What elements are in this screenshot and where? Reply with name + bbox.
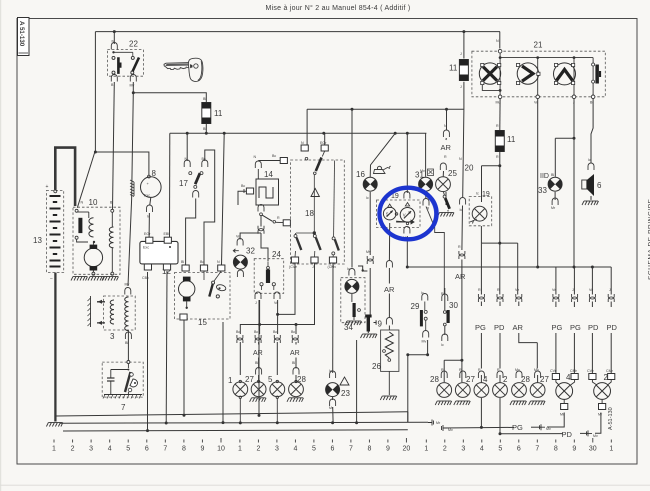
svg-text:PG: PG [552,323,563,332]
svg-text:Ic: Ic [460,208,463,212]
svg-text:Ve: Ve [274,301,278,305]
svg-text:N: N [254,155,257,159]
svg-text:29: 29 [411,302,420,311]
svg-text:N: N [444,124,447,128]
svg-text:PD: PD [494,323,505,332]
svg-text:J: J [460,52,462,56]
svg-text:11: 11 [214,109,223,118]
svg-text:EGr: EGr [144,232,151,236]
svg-text:Ve: Ve [589,288,593,292]
svg-text:N: N [217,260,220,264]
svg-text:CVe: CVe [587,369,594,373]
svg-text:6: 6 [517,445,521,452]
svg-text:4: 4 [293,445,297,452]
svg-text:27: 27 [245,375,254,384]
svg-text:(CVe: (CVe [289,265,297,269]
svg-text:PD: PD [588,323,599,332]
svg-text:N: N [496,39,499,43]
svg-text:Mv: Mv [534,368,539,372]
svg-text:AR: AR [455,272,466,281]
svg-text:Bl: Bl [181,260,184,264]
svg-text:PD: PD [562,430,573,439]
svg-text:28: 28 [430,375,439,384]
svg-text:2: 2 [443,445,447,452]
svg-text:Bc: Bc [291,330,295,334]
svg-text:1: 1 [52,445,56,452]
svg-text:Mise à jour N° 2 au Manuel 854: Mise à jour N° 2 au Manuel 854-4 ( Addit… [266,4,411,12]
svg-text:9: 9 [386,445,390,452]
svg-text:Ic: Ic [329,369,332,373]
svg-text:8: 8 [554,445,558,452]
svg-text:R: R [497,368,500,372]
svg-text:(CMv: (CMv [328,265,337,269]
svg-text:5: 5 [126,445,130,452]
svg-text:Mv: Mv [420,169,425,173]
svg-text:Mv: Mv [593,434,598,438]
svg-text:18: 18 [305,209,314,218]
svg-text:7: 7 [163,445,167,452]
svg-text:CMr: CMr [570,369,578,373]
svg-text:17: 17 [179,179,188,188]
svg-text:Mu: Mu [496,101,501,105]
svg-text:EGr: EGr [320,141,327,145]
svg-text:Ic: Ic [588,158,591,162]
svg-text:N: N [81,201,84,205]
svg-text:Bl: Bl [255,361,258,365]
svg-text:Ic: Ic [347,267,350,271]
svg-text:J: J [255,301,257,305]
svg-text:3: 3 [275,445,279,452]
svg-text:CVe: CVe [550,369,557,373]
svg-text:2: 2 [503,375,508,384]
svg-text:IID: IID [540,173,549,180]
svg-text:3: 3 [461,445,465,452]
svg-text:Mv: Mv [422,340,427,344]
svg-text:R: R [478,368,481,372]
svg-text:AR: AR [513,323,524,332]
svg-text:21: 21 [534,41,543,50]
svg-text:9: 9 [378,320,383,329]
svg-text:Mv: Mv [130,84,135,88]
svg-text:24: 24 [272,250,281,259]
svg-text:CMr: CMr [606,369,614,373]
svg-text:+: + [46,184,49,190]
svg-text:AR: AR [384,285,395,294]
svg-text:R: R [496,155,499,159]
svg-text:20: 20 [403,445,411,452]
svg-text:R: R [441,368,444,372]
svg-text:4: 4 [480,445,484,452]
svg-text:Bc: Bc [241,184,245,188]
svg-text:27: 27 [466,375,475,384]
svg-text:Ve: Ve [534,101,538,105]
svg-text:8: 8 [182,445,186,452]
svg-text:20: 20 [465,164,474,173]
svg-text:CBc: CBc [142,276,149,280]
svg-text:N: N [301,141,304,145]
svg-text:4: 4 [108,445,112,452]
svg-text:R: R [497,288,500,292]
svg-text:Bc: Bc [272,154,276,158]
svg-text:22: 22 [129,40,138,49]
svg-text:AR: AR [253,350,263,357]
svg-text:5: 5 [498,445,502,452]
svg-text:11: 11 [507,135,516,144]
svg-text:15: 15 [198,318,207,327]
svg-text:1: 1 [238,445,242,452]
svg-text:S: S [386,212,389,217]
svg-text:10: 10 [89,198,98,207]
svg-text:J: J [609,288,611,292]
svg-text:1: 1 [228,376,233,385]
svg-text:Exc: Exc [143,246,149,250]
svg-text:J: J [573,101,575,105]
svg-text:19: 19 [482,191,490,198]
svg-text:Ve: Ve [236,235,240,239]
svg-text:Bc: Bc [236,330,240,334]
svg-text:Bl: Bl [590,101,593,105]
svg-text:5: 5 [312,445,316,452]
svg-text:N: N [459,157,462,161]
svg-text:2: 2 [256,445,260,452]
svg-text:4: 4 [566,373,571,382]
svg-text:Mv: Mv [125,283,130,287]
svg-text:13: 13 [33,236,42,245]
svg-text:3: 3 [110,332,115,341]
svg-text:10: 10 [217,445,225,452]
svg-text:R: R [478,288,481,292]
svg-text:R: R [277,216,280,220]
svg-text:9: 9 [572,445,576,452]
svg-text:1: 1 [424,445,428,452]
svg-text:Ve: Ve [515,288,519,292]
svg-text:R: R [444,155,447,159]
svg-text:2: 2 [71,445,75,452]
svg-text:8: 8 [367,445,371,452]
svg-text:3: 3 [89,445,93,452]
svg-text:R: R [496,124,499,128]
svg-text:5: 5 [268,375,273,384]
svg-text:PD: PD [607,323,618,332]
svg-text:PG: PG [512,423,523,432]
svg-text:6: 6 [330,445,334,452]
svg-text:7: 7 [121,403,126,412]
svg-text:Mv: Mv [366,250,371,254]
svg-text:23: 23 [341,389,350,398]
svg-text:Bc: Bc [273,330,277,334]
svg-text:Mv: Mv [515,368,520,372]
svg-text:R: R [458,245,461,249]
svg-text:EBl: EBl [164,232,170,236]
svg-text:Bl: Bl [203,127,206,131]
svg-text:9: 9 [200,445,204,452]
svg-text:PG: PG [570,323,581,332]
svg-text:30: 30 [449,301,458,310]
svg-text:Bl: Bl [125,341,128,345]
svg-text:11: 11 [449,64,458,73]
svg-text:6: 6 [145,445,149,452]
svg-text:16: 16 [356,170,365,179]
svg-text:Mv: Mv [448,428,453,432]
svg-text:Bl: Bl [203,97,206,101]
svg-text:Ve: Ve [552,288,556,292]
svg-text:A-51-130: A-51-130 [608,407,614,430]
svg-text:Ic: Ic [147,215,150,219]
svg-text:27: 27 [540,375,549,384]
svg-text:Exc: Exc [144,194,150,198]
svg-text:Bl: Bl [292,361,295,365]
svg-text:−: − [50,276,53,282]
svg-text:25: 25 [448,169,457,178]
svg-text:Bl: Bl [551,173,554,177]
svg-text:7: 7 [349,445,353,452]
svg-text:J: J [572,288,574,292]
svg-text:Bc: Bc [254,330,258,334]
svg-text:R: R [459,368,462,372]
svg-text:1: 1 [609,445,613,452]
svg-text:PG: PG [475,323,486,332]
svg-text:V: V [403,213,406,218]
svg-text:AR: AR [290,350,300,357]
svg-text:Ic: Ic [441,343,444,347]
svg-text:Ic: Ic [476,192,479,196]
svg-text:J: J [460,85,462,89]
svg-text:Mv: Mv [546,427,551,431]
svg-text:7: 7 [535,445,539,452]
svg-text:AR: AR [441,143,452,152]
svg-text:Ic: Ic [366,196,369,200]
svg-text:J: J [312,265,314,269]
svg-text:A 51-130: A 51-130 [18,21,25,47]
svg-text:6: 6 [597,181,602,190]
svg-text:14: 14 [264,170,273,179]
svg-text:30: 30 [589,445,597,452]
svg-text:32: 32 [246,247,255,256]
svg-text:33: 33 [538,186,547,195]
svg-text:Bc: Bc [200,260,204,264]
svg-text:26: 26 [372,362,381,371]
